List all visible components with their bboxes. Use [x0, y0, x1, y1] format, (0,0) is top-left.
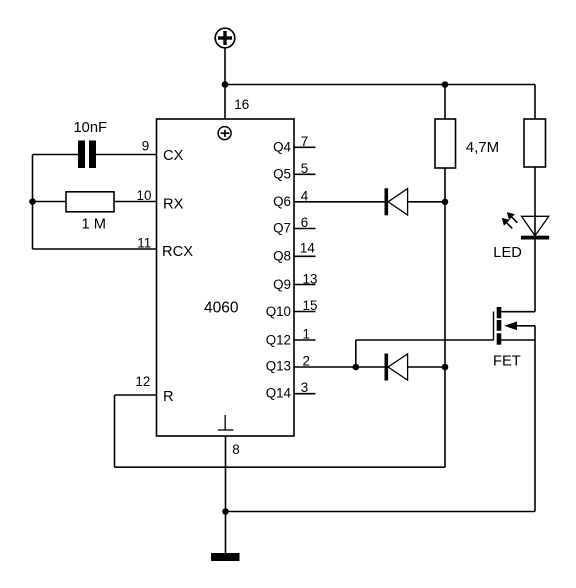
svg-text:LED: LED	[493, 245, 522, 261]
wire: body-source vertical down to ground rail	[534, 326, 536, 512]
svg-text:Q8: Q8	[273, 248, 291, 263]
node: ground junction	[222, 508, 229, 515]
power supply + symbol	[215, 28, 235, 48]
LED D3 triangle	[522, 216, 549, 235]
svg-text:6: 6	[301, 215, 308, 230]
wire: R pin down left side	[114, 395, 116, 467]
svg-text:RCX: RCX	[162, 244, 193, 260]
diode D2 cathode bar	[385, 354, 389, 381]
pin stub Q12 pin 1	[294, 339, 316, 341]
svg-text:Q14: Q14	[266, 386, 292, 401]
wire: gate branch down to Q13	[355, 340, 357, 367]
pin stub Q8 pin 14	[294, 255, 316, 257]
capacitor C1 10nF plates	[78, 141, 85, 169]
pin stub Q7 pin 6	[294, 228, 316, 230]
wire: resistor to LED anode	[534, 167, 536, 236]
svg-text:CX: CX	[163, 148, 184, 164]
wire: RX pin right segment	[114, 201, 157, 203]
wire: FET source	[501, 339, 535, 341]
diode D2 triangle	[388, 354, 408, 380]
svg-text:9: 9	[142, 138, 149, 153]
node: junction V+ rail	[222, 81, 229, 88]
diode D1 cathode bar	[385, 188, 389, 215]
svg-text:1: 1	[303, 327, 310, 342]
svg-text:Q9: Q9	[273, 277, 291, 292]
LED emission arrow 1	[507, 212, 518, 223]
LED D3 cathode bar	[521, 236, 549, 240]
transistor Q1 FET body bar	[497, 320, 502, 331]
svg-text:16: 16	[234, 97, 249, 112]
LED emission arrow 2	[502, 218, 513, 229]
svg-text:1 M: 1 M	[82, 217, 106, 233]
svg-text:8: 8	[232, 442, 239, 457]
wire: IC pin 8 down to ground	[225, 436, 227, 553]
wire: Q6 to diode D1	[294, 201, 385, 203]
resistor R1 1M body	[66, 192, 114, 212]
pin stub Q10 pin 15	[294, 311, 316, 313]
wire: left vertical joining CX RX RCX	[32, 155, 34, 250]
svg-text:10: 10	[137, 188, 152, 203]
svg-text:10nF: 10nF	[74, 120, 108, 136]
svg-text:12: 12	[135, 374, 150, 389]
pin stub Q5 pin 5	[294, 173, 316, 175]
node: D2 anode junction	[442, 364, 449, 371]
node: junction above 4,7M	[442, 81, 449, 88]
wire: top supply rail	[225, 84, 535, 86]
svg-text:14: 14	[300, 241, 315, 256]
node: D1 anode junction	[442, 199, 449, 206]
svg-text:13: 13	[303, 272, 318, 287]
wire: 4,7M node vertical	[444, 85, 446, 120]
transistor Q1 FET gate line	[493, 312, 495, 341]
transistor Q1 FET source bar	[497, 333, 502, 344]
svg-text:4,7M: 4,7M	[466, 139, 499, 156]
FET body arrow	[504, 322, 535, 331]
svg-text:Q4: Q4	[273, 139, 291, 154]
wire: D2 anode to node	[408, 366, 445, 368]
wire: ground rail horizontal	[226, 511, 536, 513]
wire: Q13 to diode D2	[294, 366, 385, 368]
wire: FET drain	[501, 311, 535, 313]
diode D1 triangle	[388, 189, 408, 215]
svg-text:Q5: Q5	[273, 166, 291, 181]
wire: gate horizontal	[356, 339, 494, 341]
pin stub Q9 pin 13	[294, 284, 316, 286]
svg-text:R: R	[163, 389, 174, 405]
svg-text:Q7: Q7	[273, 221, 291, 236]
svg-text:Q10: Q10	[266, 304, 291, 319]
svg-text:FET: FET	[493, 353, 521, 369]
wire: 4,7M bottom down to reset rail	[444, 168, 446, 467]
svg-text:15: 15	[303, 298, 318, 313]
wire: D1 anode to node	[408, 201, 445, 203]
svg-text:2: 2	[303, 353, 310, 368]
wire: reset rail horizontal	[115, 466, 446, 468]
resistor R2 4,7M body	[435, 119, 456, 168]
wire: CX pin right segment	[96, 154, 157, 156]
IC internal supply symbol (circle plus)	[218, 127, 231, 140]
svg-text:3: 3	[301, 380, 308, 395]
node: Q13 gate branch junction	[353, 364, 360, 371]
svg-text:Q13: Q13	[266, 359, 291, 374]
wire: rail corner down to LED resistor	[534, 85, 536, 120]
IC U1 4060 body	[157, 119, 295, 436]
transistor Q1 FET drain bar	[497, 307, 502, 318]
svg-text:7: 7	[301, 134, 308, 149]
svg-text:5: 5	[301, 161, 308, 176]
pin stub Q14 pin 3	[294, 393, 316, 395]
pin stub Q4 pin 7	[294, 146, 316, 148]
IC internal ground symbol	[218, 415, 234, 430]
svg-text:Q12: Q12	[266, 332, 291, 347]
svg-text:Q6: Q6	[273, 194, 291, 209]
wire: RX pin left segment	[33, 201, 67, 203]
wire: R pin stub	[115, 394, 157, 396]
node: junction on left vertical	[29, 198, 36, 205]
resistor R3 LED series body	[524, 119, 546, 167]
wire: V+ down to IC pin 16	[224, 48, 226, 119]
ground symbol	[211, 553, 240, 561]
svg-text:RX: RX	[163, 196, 184, 212]
wire: LED cathode down to FET drain	[534, 240, 536, 312]
wire: CX pin left segment	[33, 154, 79, 156]
svg-text:4060: 4060	[204, 299, 239, 316]
wire: RCX pin	[33, 248, 157, 250]
